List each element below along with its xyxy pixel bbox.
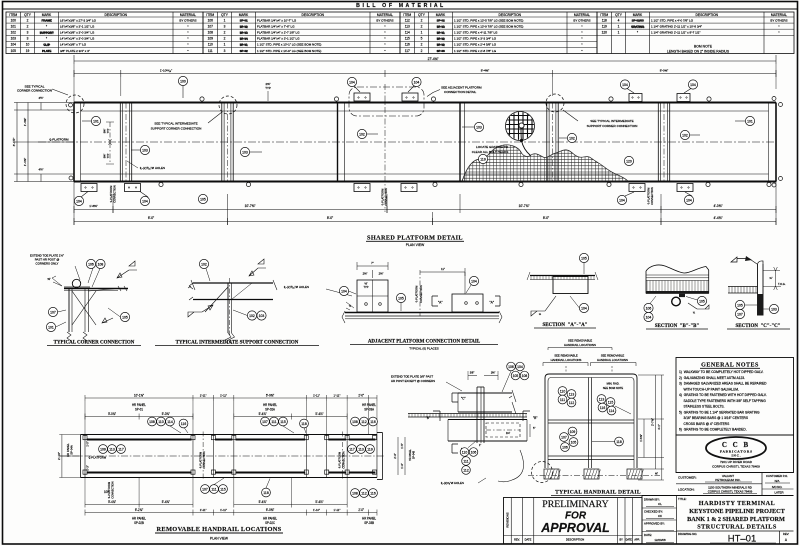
svg-text:8'-0⅝": 8'-0⅝" <box>660 69 668 73</box>
svg-text:BY OTHERS: BY OTHERS <box>573 18 590 22</box>
svg-text:APPROVED BY:: APPROVED BY: <box>644 521 665 525</box>
svg-text:MATERIAL: MATERIAL <box>771 13 787 17</box>
svg-text:MARK: MARK <box>436 13 446 17</box>
svg-text:119: 119 <box>602 24 607 28</box>
svg-text:1'-11": 1'-11" <box>220 393 227 397</box>
svg-text:⅝": ⅝" <box>655 472 658 476</box>
svg-text:6'-0⅝": 6'-0⅝" <box>266 508 274 512</box>
junction B markers <box>433 411 440 421</box>
svg-text:116: 116 <box>405 43 410 47</box>
svg-text:2: 2 <box>224 31 226 35</box>
svg-text:T.O.G.: T.O.G. <box>778 282 786 286</box>
svg-text:117: 117 <box>118 447 124 451</box>
svg-text:106: 106 <box>88 262 94 266</box>
svg-text:DATE: DATE <box>626 538 633 541</box>
svg-text:111: 111 <box>463 459 468 463</box>
svg-text:⅝": ⅝" <box>47 277 50 281</box>
svg-text:101: 101 <box>93 119 99 123</box>
svg-text:SP-02: SP-02 <box>437 37 445 41</box>
svg-text:108: 108 <box>98 262 104 266</box>
svg-text:℄-PLATFORM: ℄-PLATFORM <box>48 138 69 142</box>
svg-text:MIN. RAD.: MIN. RAD. <box>607 382 620 386</box>
junction upper beam <box>458 392 512 394</box>
svg-text:5'-0⅞": 5'-0⅞" <box>162 412 170 416</box>
handrail plan bottom dims <box>85 504 193 506</box>
svg-text:1'-6⅞": 1'-6⅞" <box>639 434 643 442</box>
svg-text:101: 101 <box>11 24 17 28</box>
svg-text:CUSTOMER P.O.: CUSTOMER P.O. <box>766 474 788 478</box>
svg-text:℄-(2)³⁄₈"Ø HOLES: ℄-(2)³⁄₈"Ø HOLES <box>440 481 464 485</box>
svg-text:110: 110 <box>462 450 468 454</box>
sbb pipe circle <box>672 297 681 306</box>
extension lines below <box>73 182 75 226</box>
svg-text:104: 104 <box>686 198 692 202</box>
svg-text:119: 119 <box>480 157 486 161</box>
junction bubbles top right <box>507 362 516 371</box>
svg-text:I N C .: I N C . <box>731 453 740 457</box>
svg-text:CORNER CONNECTION: CORNER CONNECTION <box>17 89 52 93</box>
svg-text:SP-04: SP-04 <box>240 37 248 41</box>
svg-text:108: 108 <box>149 420 155 424</box>
tisc bubbles <box>199 259 208 268</box>
junction left dims <box>397 437 399 475</box>
intermediate support at 227 <box>227 103 229 182</box>
svg-text:1'-11": 1'-11" <box>200 393 207 397</box>
svg-text:106: 106 <box>562 445 568 449</box>
svg-text:107: 107 <box>202 487 208 491</box>
svg-text:102: 102 <box>682 133 688 137</box>
svg-text:104: 104 <box>11 43 17 47</box>
svg-text:5'-4⅞": 5'-4⅞" <box>259 500 267 504</box>
svg-text:2'-0": 2'-0" <box>358 508 364 512</box>
svg-text:QTY: QTY <box>24 13 32 17</box>
handrail plan centerline <box>60 455 384 457</box>
svg-text:2: 2 <box>224 37 226 41</box>
typical intermediate support connection detail <box>193 282 273 284</box>
svg-text:4½": 4½" <box>39 168 44 172</box>
svg-text:1¼": 1¼" <box>506 432 510 435</box>
intermediate support at 552 <box>552 103 554 182</box>
svg-text:118: 118 <box>616 440 622 444</box>
handrail mid rail <box>548 419 634 421</box>
svg-text:1: 1 <box>618 24 620 28</box>
svg-text:101: 101 <box>747 119 753 123</box>
section B-B <box>646 265 709 273</box>
handrail flatbar heavy segments bottom <box>87 472 192 474</box>
svg-text:102: 102 <box>11 31 17 35</box>
logo block box <box>676 435 794 473</box>
svg-text:4) GRATING TO BE FASTENED WIT: 4) GRATING TO BE FASTENED WITH HOT DIPPE… <box>679 393 767 397</box>
svg-text:CONNECTION DETAIL: CONNECTION DETAIL <box>444 90 477 94</box>
bubble leaders <box>82 120 91 122</box>
svg-text:CONNECTION: CONNECTION <box>113 185 117 203</box>
svg-text:℄-PLATFORM: ℄-PLATFORM <box>647 188 651 205</box>
svg-text:SP-03B: SP-03B <box>364 521 374 525</box>
svg-text:120: 120 <box>602 31 608 35</box>
svg-text:106: 106 <box>508 365 514 369</box>
svg-text:KEYSTONE PIPELINE PROJECT: KEYSTONE PIPELINE PROJECT <box>689 508 785 515</box>
svg-text:SP-02/03: SP-02/03 <box>632 19 644 23</box>
svg-text:LENGTH BASED ON 2" INSIDE RADI: LENGTH BASED ON 2" INSIDE RADIUS <box>667 50 730 54</box>
handrail frame clusters <box>558 387 567 396</box>
svg-text:107: 107 <box>50 310 56 314</box>
sbb weld <box>688 303 709 309</box>
svg-text:6'-0": 6'-0" <box>148 216 154 220</box>
svg-text:℄-PLATFORM: ℄-PLATFORM <box>415 286 419 303</box>
svg-text:SUPPORT CORNER CONNECTION: SUPPORT CORNER CONNECTION <box>587 124 638 128</box>
svg-text:105: 105 <box>398 296 404 300</box>
svg-text:BANK 1 & 2 SHARED PLATFORM: BANK 1 & 2 SHARED PLATFORM <box>687 516 785 523</box>
svg-text:5'-4⅞": 5'-4⅞" <box>315 412 323 416</box>
svg-text:℄-PLATFORM: ℄-PLATFORM <box>109 186 113 203</box>
svg-text:117: 117 <box>349 447 355 451</box>
BOM section 3 <box>400 12 597 54</box>
bottom clips <box>81 184 97 192</box>
svg-text:102: 102 <box>359 132 365 136</box>
svg-text:1'-5": 1'-5" <box>86 441 90 447</box>
junction hr post <box>476 387 478 443</box>
svg-text:DESCRIPTION: DESCRIPTION <box>566 537 584 541</box>
svg-text:REVISIONS: REVISIONS <box>506 512 510 527</box>
svg-text:111: 111 <box>211 487 216 491</box>
svg-text:QTY: QTY <box>615 13 623 17</box>
svg-text:1 1/2" STD. PIPE x 4'-0 7/8" L: 1 1/2" STD. PIPE x 4'-0 7/8" LG <box>651 18 694 22</box>
bolt holes bottom edge <box>159 182 163 186</box>
svg-text:SEE ADJACENT PLATFORM: SEE ADJACENT PLATFORM <box>441 86 482 90</box>
svg-text:REMOVABLE HANDRAIL LOCATIONS: REMOVABLE HANDRAIL LOCATIONS <box>157 526 282 533</box>
svg-text:120: 120 <box>626 159 632 163</box>
svg-text:5": 5" <box>533 426 535 430</box>
svg-text:107: 107 <box>208 24 214 28</box>
svg-text:SP-02: SP-02 <box>240 49 248 53</box>
handrail base dashed line <box>528 475 660 477</box>
svg-text:105: 105 <box>571 440 577 444</box>
svg-text:C C B: C C B <box>722 441 750 449</box>
svg-text:107: 107 <box>737 312 743 316</box>
svg-text:ADJACENT PLATFORM CONNECTION D: ADJACENT PLATFORM CONNECTION DETAIL <box>368 340 481 345</box>
svg-text:3: 3 <box>224 24 226 28</box>
svg-text:5'-4⅞": 5'-4⅞" <box>315 500 323 504</box>
svg-text:4½": 4½" <box>39 96 44 100</box>
corner vertical post <box>68 289 70 333</box>
svg-text:1'-5": 1'-5" <box>400 443 404 448</box>
svg-text:PLAN VIEW: PLAN VIEW <box>210 537 229 541</box>
svg-text:4'-4⅜": 4'-4⅜" <box>713 216 722 220</box>
svg-text:DRAWN BY:: DRAWN BY: <box>644 497 660 501</box>
svg-text:2: 2 <box>27 18 29 22</box>
svg-text:1'-10": 1'-10" <box>313 508 320 512</box>
svg-text:ITEM: ITEM <box>9 13 17 17</box>
svg-text:8'-0": 8'-0" <box>327 216 333 220</box>
handrail plan dim row 2 <box>85 416 193 418</box>
apc left clip <box>357 280 388 312</box>
corner diagonal braces <box>72 291 96 325</box>
scc grating comb <box>728 286 758 288</box>
svg-text:3: 3 <box>27 31 29 35</box>
svg-text:114: 114 <box>609 409 615 413</box>
svg-text:12/20/08: 12/20/08 <box>654 538 666 542</box>
section A-A <box>530 275 595 277</box>
svg-text:ITEM: ITEM <box>600 13 608 17</box>
svg-text:WITH TOUCH-UP PAINT GALVALUM.: WITH TOUCH-UP PAINT GALVALUM. <box>679 387 739 391</box>
svg-text:8'-0": 8'-0" <box>543 216 549 220</box>
svg-text:MARK: MARK <box>42 13 52 17</box>
svg-text:CK: CK <box>658 514 662 518</box>
svg-text:L4"x4"x3/8" x 3'-0 3/4" LG: L4"x4"x3/8" x 3'-0 3/4" LG <box>60 31 95 35</box>
svg-text:3: 3 <box>27 37 29 41</box>
revisions columns <box>510 498 512 544</box>
svg-text:B I L L O F M A T E R I A: B I L L O F M A T E R I A L <box>356 3 444 9</box>
svg-text:SADDLE TYPE FASTENERS WITH 3/8: SADDLE TYPE FASTENERS WITH 3/8" SELF TAP… <box>679 399 766 403</box>
handrail plan inside clusters <box>99 445 108 454</box>
handrail plan below clusters <box>201 485 210 494</box>
svg-text:SUPPORT: SUPPORT <box>40 31 54 35</box>
svg-text:QTY: QTY <box>221 13 229 17</box>
svg-text:115: 115 <box>280 420 286 424</box>
connection centerline x385 <box>384 84 386 212</box>
svg-text:107: 107 <box>561 435 567 439</box>
svg-text:105: 105 <box>581 256 587 260</box>
removable handrail plan (scaled group) <box>57 393 384 525</box>
junction bubbles left stack <box>460 448 469 457</box>
svg-text:SP-04A: SP-04A <box>70 445 74 455</box>
handrail plan dividers <box>192 435 194 478</box>
svg-text:℄-PLATFORM: ℄-PLATFORM <box>108 482 111 499</box>
svg-text:116: 116 <box>370 491 376 495</box>
tisc vertical post <box>227 283 229 333</box>
svg-text:1'-11": 1'-11" <box>334 393 341 397</box>
platform joint at 461 <box>459 103 461 182</box>
svg-text:2: 2 <box>27 24 29 28</box>
svg-text:104: 104 <box>76 199 82 203</box>
svg-text:CROSS BARS @ 4" CENTERS: CROSS BARS @ 4" CENTERS <box>679 422 730 426</box>
svg-text:10: 10 <box>26 43 30 47</box>
svg-text:1 1/2" STD. PIPE x 2'-8 7/8" L: 1 1/2" STD. PIPE x 2'-8 7/8" LG <box>454 49 497 53</box>
shared platform frame <box>74 102 776 104</box>
svg-text:QTY: QTY <box>418 13 426 17</box>
svg-text:118: 118 <box>263 491 269 495</box>
svg-text:"B": "B" <box>533 416 537 420</box>
svg-text:HR PANEL: HR PANEL <box>66 443 70 457</box>
handrail base plates <box>544 469 559 479</box>
svg-text:STRUCTURAL DETAILS: STRUCTURAL DETAILS <box>697 524 777 531</box>
svg-text:STAINLESS STEEL BOLTS.: STAINLESS STEEL BOLTS. <box>679 405 725 409</box>
svg-text:CL: CL <box>658 502 662 506</box>
svg-text:4'-0⅝": 4'-0⅝" <box>713 204 722 208</box>
svg-text:1'-3": 1'-3" <box>400 463 404 468</box>
platform centerline <box>38 141 776 143</box>
svg-text:DESCRIPTION: DESCRIPTION <box>695 13 718 17</box>
svg-text:SP-01: SP-01 <box>135 407 143 411</box>
clip angle top at 630 <box>629 94 642 102</box>
apc dim 11 <box>420 271 465 273</box>
svg-text:113: 113 <box>569 392 575 396</box>
adjacent platform phantom outline top <box>349 87 424 116</box>
junction curved leader <box>498 450 524 482</box>
junction small dims right <box>529 424 531 437</box>
svg-text:HR POST EXCEPT @ CORNERS: HR POST EXCEPT @ CORNERS <box>391 379 435 383</box>
svg-text:REV.: REV. <box>514 537 520 541</box>
svg-text:SP-02: SP-02 <box>437 19 445 23</box>
corner bubbles <box>86 259 95 268</box>
svg-text:APPROVAL: APPROVAL <box>540 521 610 535</box>
svg-text:℄-(2)⁹⁄₁₆"Ø HOLES: ℄-(2)⁹⁄₁₆"Ø HOLES <box>283 285 309 289</box>
svg-text:DESCRIPTION: DESCRIPTION <box>104 13 127 17</box>
svg-text:1 1/2" STD. PIPE x 2'-4 5/8" L: 1 1/2" STD. PIPE x 2'-4 5/8" LG <box>454 43 497 47</box>
svg-text:SP-03: SP-03 <box>437 49 445 53</box>
svg-text:"B": "B" <box>426 416 430 420</box>
svg-text:2⅛": 2⅛" <box>379 272 384 276</box>
svg-text:10'-7⅝": 10'-7⅝" <box>245 204 256 208</box>
svg-text:10'-1⅝": 10'-1⅝" <box>134 393 144 397</box>
svg-text:1) WALKWAY TO BE COMPLETELY H: 1) WALKWAY TO BE COMPLETELY HOT DIPPED G… <box>679 370 764 374</box>
junction dashed box <box>486 423 520 437</box>
svg-text:108: 108 <box>352 491 358 495</box>
svg-text:FLATBAR 1/4"x4" x 7'-6" LG: FLATBAR 1/4"x4" x 7'-6" LG <box>257 24 295 28</box>
svg-text:102: 102 <box>249 314 255 318</box>
svg-text:REV:: REV: <box>783 532 789 536</box>
svg-text:108: 108 <box>352 420 358 424</box>
corner break marks <box>67 332 87 341</box>
svg-text:DATE:: DATE: <box>644 533 652 537</box>
svg-text:TYPICAL HANDRAIL DETAIL: TYPICAL HANDRAIL DETAIL <box>555 490 641 496</box>
svg-text:103: 103 <box>142 148 148 152</box>
typical corner connection detail <box>64 288 128 290</box>
svg-text:2'-7⅞": 2'-7⅞" <box>651 418 655 426</box>
svg-text:1: 1 <box>224 18 226 22</box>
corner weld symbols <box>117 270 129 278</box>
tisc break marks <box>189 283 193 300</box>
svg-text:S/O NO.: S/O NO. <box>772 485 783 489</box>
svg-text:104: 104 <box>349 80 355 84</box>
intermediate support at 664 <box>663 103 665 182</box>
svg-text:2⅛": 2⅛" <box>363 272 368 276</box>
junction top dims <box>468 375 477 377</box>
svg-text:104: 104 <box>646 315 652 319</box>
svg-text:5'-0⅞": 5'-0⅞" <box>108 412 116 416</box>
svg-text:BY OTHERS: BY OTHERS <box>770 18 787 22</box>
svg-text:5: 5 <box>421 37 423 41</box>
svg-text:109: 109 <box>208 37 214 41</box>
svg-text:ITEM: ITEM <box>206 13 214 17</box>
svg-text:1: 1 <box>618 31 620 35</box>
svg-text:1 1/4" GRATING 2'-11 1/2" x 8': 1 1/4" GRATING 2'-11 1/2" x 8'-7 1/2" <box>651 31 700 35</box>
svg-text:PRELIMINARY: PRELIMINARY <box>542 499 608 510</box>
svg-text:111: 111 <box>560 398 565 402</box>
handrail flatbar heavy segments top <box>87 439 192 441</box>
svg-text:104: 104 <box>690 83 696 87</box>
svg-text:4: 4 <box>618 18 620 22</box>
svg-text:SP-04B: SP-04B <box>413 450 416 459</box>
svg-text:L4"x4"x3/8" x 7" LG: L4"x4"x3/8" x 7" LG <box>60 43 87 47</box>
svg-text:MATERIAL: MATERIAL <box>180 13 196 17</box>
svg-text:109: 109 <box>570 430 576 434</box>
apc ground hatch-break <box>342 311 502 323</box>
svg-text:100: 100 <box>11 18 17 22</box>
svg-text:110: 110 <box>208 43 213 47</box>
svg-text:CONNECTION: CONNECTION <box>419 285 423 303</box>
handrail plan dim row 1 <box>85 397 377 399</box>
svg-text:DESCRIPTION: DESCRIPTION <box>301 13 324 17</box>
apc right clip <box>452 294 483 312</box>
svg-text:112: 112 <box>361 491 367 495</box>
svg-text:GRATING: GRATING <box>631 25 645 29</box>
svg-text:TYP: TYP <box>107 153 110 158</box>
BOM section 4 <box>597 12 794 54</box>
svg-text:118: 118 <box>602 18 607 22</box>
handrail toe plate <box>548 455 634 457</box>
svg-text:TYP: TYP <box>265 86 271 90</box>
section C-C <box>731 257 749 262</box>
intermediate dashed circle at 552 <box>546 94 564 112</box>
revisions header row <box>504 535 642 537</box>
svg-text:BY OTHERS: BY OTHERS <box>376 18 393 22</box>
svg-text:6'-2⅞": 6'-2⅞" <box>135 508 143 512</box>
svg-text:19: 19 <box>26 49 30 53</box>
handrail plan left dims <box>61 435 63 478</box>
svg-text:115: 115 <box>220 487 226 491</box>
svg-text:105: 105 <box>513 374 519 378</box>
scc toe plate vertical <box>757 264 759 316</box>
corner pipe circle <box>72 279 80 287</box>
svg-text:104: 104 <box>142 199 148 203</box>
svg-text:118: 118 <box>301 422 307 426</box>
svg-text:L6"x4"x3/8" x 3'-1 1/2" LG: L6"x4"x3/8" x 3'-1 1/2" LG <box>60 24 95 28</box>
svg-text:104: 104 <box>341 289 347 293</box>
svg-text:FOR: FOR <box>565 511 587 522</box>
junction grating comb <box>408 413 527 415</box>
svg-text:℄-PLATFORM: ℄-PLATFORM <box>199 452 202 469</box>
svg-text:1⅜": 1⅜" <box>491 371 496 375</box>
svg-text:109: 109 <box>100 447 106 451</box>
svg-text:1 1/2" STD. PIPE x 14'-9" LG (: 1 1/2" STD. PIPE x 14'-9" LG (SEE BOM NO… <box>257 49 321 53</box>
svg-text:CORNERS ONLY: CORNERS ONLY <box>36 262 59 266</box>
svg-text:112: 112 <box>569 401 575 405</box>
svg-text:SP-01: SP-01 <box>240 43 248 47</box>
svg-text:107: 107 <box>262 420 268 424</box>
svg-text:104: 104 <box>581 306 587 310</box>
svg-text:CLEAR ALL BOLT HEADS: CLEAR ALL BOLT HEADS <box>472 150 509 154</box>
svg-text:FLATBAR 1/4"x4" x 2'-7 1/8" LG: FLATBAR 1/4"x4" x 2'-7 1/8" LG <box>257 31 300 35</box>
svg-text:SP-01: SP-01 <box>240 19 248 23</box>
svg-text:CONNECTION: CONNECTION <box>650 187 654 205</box>
svg-text:7201 UP RIVER ROAD: 7201 UP RIVER ROAD <box>720 460 753 464</box>
scc dim <box>775 271 777 286</box>
BOM section 1 <box>6 12 203 54</box>
svg-text:L4"x4"x1/4" x 3'-0 3/4" LG: L4"x4"x1/4" x 3'-0 3/4" LG <box>60 37 95 41</box>
svg-text:113: 113 <box>109 447 115 451</box>
tisc dashdot <box>229 278 231 336</box>
svg-text:106: 106 <box>208 18 214 22</box>
handrail right dims <box>643 419 645 458</box>
end bolt circles <box>69 103 73 107</box>
svg-text:3'-1½": 3'-1½" <box>12 138 16 147</box>
svg-text:7": 7" <box>371 261 374 265</box>
svg-text:112: 112 <box>463 468 469 472</box>
svg-text:2: 2 <box>421 43 423 47</box>
svg-text:5'-4⅞": 5'-4⅞" <box>108 500 116 504</box>
svg-text:ITEM: ITEM <box>403 13 411 17</box>
handrail mid post <box>588 378 590 469</box>
svg-text:SP-02: SP-02 <box>437 43 445 47</box>
svg-text:SECTION "B"-"B": SECTION "B"-"B" <box>655 324 700 329</box>
handrail plan callout clusters <box>148 417 157 426</box>
svg-text:BY: BY <box>620 538 624 541</box>
apc section A markers <box>432 296 438 306</box>
svg-text:1 1/4" GRATING 2'-11 1/2" x 10: 1 1/4" GRATING 2'-11 1/2" x 10'-8 3/4" <box>651 24 702 28</box>
svg-text:114: 114 <box>405 31 410 35</box>
svg-text:116: 116 <box>600 406 606 410</box>
